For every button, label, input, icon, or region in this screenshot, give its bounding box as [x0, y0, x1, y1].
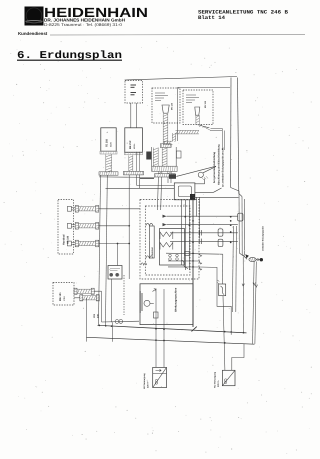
wire cluster to LE left — [157, 177, 158, 210]
cable stair upper run — [176, 130, 200, 134]
wave connector left — [141, 263, 147, 265]
junction — [163, 340, 165, 342]
wire LE bottom row 3 — [168, 266, 200, 268]
HEIDENHAIN logo — [25, 7, 44, 26]
transformer 1 strip — [153, 372, 167, 374]
cluster left nub — [146, 152, 151, 160]
wire X1 up — [204, 179, 206, 184]
stub tick b — [199, 261, 202, 264]
svg-text:Kundendienst: Kundendienst — [18, 31, 48, 36]
arrow row 1 — [163, 215, 167, 218]
ground clamp symbol — [198, 172, 203, 177]
wire right frame conductor 2 — [238, 78, 239, 194]
machine terminal block — [154, 312, 159, 318]
svg-text:BV 120: BV 120 — [171, 102, 174, 110]
stub tick c — [199, 267, 202, 270]
wire into earth point 1 — [239, 253, 246, 258]
terminal box X31 — [108, 266, 122, 280]
wire LE row 1 — [167, 215, 238, 217]
junction — [230, 231, 232, 233]
X31 terminals — [109, 273, 113, 277]
wire right pair b — [235, 226, 238, 312]
wire LE column c — [188, 200, 190, 271]
earth screw dot — [260, 258, 263, 261]
suppressor ticks — [217, 280, 219, 284]
cluster tail pair left — [158, 171, 162, 173]
wire ground bus y188 — [106, 187, 140, 189]
LE power supply box — [160, 229, 185, 266]
filter component row 4 — [218, 229, 223, 236]
wire LE column b — [184, 200, 186, 271]
machine connector strip — [140, 291, 142, 313]
monitor unit BE (dashed) — [152, 88, 180, 123]
wire cluster to X1 a — [167, 177, 169, 183]
machine PE terminal — [144, 300, 150, 306]
LE 360 cabinet (dashed) — [140, 200, 199, 280]
junction — [128, 225, 130, 227]
printer cable flange b — [91, 288, 94, 294]
suppressor component box — [219, 284, 226, 296]
printer cable flange d — [96, 295, 99, 301]
transformer 1 diagonal — [153, 367, 167, 387]
svg-text:220 V~: 220 V~ — [146, 380, 149, 388]
wire right frame conductor 1 — [230, 78, 232, 188]
cluster tail pair right — [168, 171, 171, 173]
cable under unit A — [106, 154, 112, 172]
wire PE terminals — [102, 320, 140, 323]
winding symbol 1 — [160, 232, 173, 239]
cable under unit B — [129, 155, 133, 171]
wire row to suppressor — [222, 254, 224, 284]
svg-text:an zentralen Erdungspunkt ansc: an zentralen Erdungspunkt anschl. — [222, 147, 225, 187]
wire PE terminal link — [150, 302, 154, 304]
svg-text:Blatt 14: Blatt 14 — [198, 15, 225, 21]
earth point wedge — [245, 254, 249, 258]
cluster right nub — [176, 151, 181, 158]
PE hook at main conductor — [192, 327, 197, 332]
junction — [224, 331, 226, 333]
connector X1 marker — [190, 194, 195, 200]
transformer 1 mark — [155, 379, 157, 381]
wire cabinet enclosure outline — [178, 88, 231, 142]
svg-text:Id.Nr.: Id.Nr. — [133, 143, 136, 149]
isolating transformer 2 — [222, 370, 235, 385]
wire cluster to X1 b — [170, 177, 172, 183]
wave connector upper — [146, 223, 153, 225]
wire ground conductor 3 — [244, 199, 246, 256]
junction — [117, 243, 119, 245]
shielded cable — [79, 241, 96, 245]
svg-text:BV 120: BV 120 — [204, 100, 207, 108]
flange under unit A — [100, 151, 117, 154]
junction — [192, 266, 194, 268]
printer cable flange c — [80, 295, 83, 301]
junction — [155, 328, 157, 330]
junction — [243, 332, 245, 334]
machine feed arrow — [153, 289, 157, 292]
cluster flange bar 2 — [155, 174, 176, 177]
wave connector lower — [146, 256, 153, 258]
handwheel cable row 3 — [67, 241, 71, 246]
capacitor pair row 3 — [199, 230, 201, 235]
unit B visual display — [125, 128, 143, 153]
stub tick a — [199, 253, 202, 256]
wire jog 2 — [239, 194, 242, 197]
winding symbol 2 — [160, 243, 173, 250]
wire printer cable 2 lead — [74, 297, 80, 299]
flow arrow c — [242, 284, 244, 287]
svg-text:LE-Versorgung: LE-Versorgung — [143, 373, 146, 389]
wire jog 1 — [231, 188, 239, 192]
connector X1 box — [174, 183, 195, 200]
leader line from note to cluster — [176, 166, 216, 176]
wire unit B cable L-turn to X1 upper — [137, 175, 174, 186]
wire ground bus 2 — [87, 337, 255, 344]
cable flange — [75, 223, 78, 230]
pigtail symbol — [182, 260, 188, 269]
svg-text:BE 212: BE 212 — [129, 140, 132, 149]
junction — [163, 328, 165, 330]
transformer 2 diagonal — [222, 370, 235, 385]
cluster left edge — [151, 147, 153, 166]
flange lower A — [99, 172, 118, 175]
cable stair step — [172, 133, 175, 141]
junction — [128, 243, 130, 245]
svg-text:NC-Versorgung: NC-Versorgung — [214, 371, 217, 388]
wire bus to transformer 2 — [232, 344, 244, 370]
isolating transformer 1 — [153, 367, 167, 387]
junction — [192, 252, 194, 254]
wire cluster to LE right — [160, 177, 163, 210]
wire LE row 2 — [167, 224, 238, 226]
LE inner enclosure (dashed) — [145, 206, 190, 275]
wire into earth point 2 — [242, 254, 247, 259]
wire unit B cable L-turn to X1 lower — [140, 175, 174, 188]
junction — [189, 224, 191, 226]
LE transformer column — [149, 226, 154, 258]
wire ground bus 1 — [98, 325, 247, 333]
svg-text:Id.Nr: Id.Nr — [110, 142, 113, 147]
cable monitor 2 to right pair — [211, 128, 225, 150]
wire earth pair b — [255, 262, 256, 344]
monitor unit 2 (dashed) — [183, 90, 213, 125]
wire LE bottom row 2 — [168, 260, 200, 262]
junction — [230, 242, 232, 244]
cable flange — [96, 240, 99, 247]
svg-text:Handrad: Handrad — [63, 234, 66, 245]
wire earth pair a — [253, 262, 255, 344]
wire drop cable 2 to bus — [86, 298, 88, 342]
cable monitor 2 diagonal — [197, 125, 212, 131]
transformer 2 mark — [224, 379, 226, 381]
junction — [105, 325, 107, 327]
cable from monitor 2 vertical — [196, 115, 199, 124]
wire machine to transformer L — [155, 289, 157, 367]
wire LE row 4 — [170, 240, 238, 242]
terminal pair a — [169, 254, 172, 257]
junction — [192, 220, 194, 222]
junction — [230, 216, 232, 218]
cable from monitor 1 — [163, 114, 168, 144]
wire unit B pair b — [139, 152, 141, 172]
cable stair lower run — [163, 141, 173, 145]
junction — [192, 260, 194, 262]
cable flange — [75, 206, 78, 213]
wire X1 note bend — [214, 188, 222, 192]
wire ground conductor 1 — [238, 191, 240, 253]
wire lug to screw — [256, 259, 263, 261]
svg-text:HR 330: HR 330 — [67, 235, 70, 244]
wire machine to transformer R — [163, 289, 165, 367]
svg-text:X21: X21 — [93, 313, 96, 318]
svg-text:Netzteil: Netzteil — [151, 247, 154, 256]
junction — [230, 220, 232, 222]
svg-text:bei getrennter Aufstellung: bei getrennter Aufstellung — [213, 152, 216, 183]
wire top frame line — [125, 77, 238, 81]
svg-text:TE 350: TE 350 — [106, 138, 109, 147]
wire from unit A ground right — [106, 175, 108, 325]
arrow row 2 — [163, 223, 167, 226]
component bottom row — [185, 251, 189, 255]
monitor 2 connector — [195, 107, 200, 115]
unit A keyboard — [101, 128, 116, 151]
suppressor pigtail — [221, 286, 225, 295]
wire right pair a — [232, 226, 233, 312]
junction — [192, 242, 194, 244]
cable flange — [75, 240, 78, 247]
wire main PE conductor — [192, 195, 194, 327]
dashed cabinet extension — [123, 275, 125, 315]
cable flange — [96, 223, 99, 230]
wire LE row to lower right W1 — [200, 267, 231, 335]
wire X1 top right — [195, 183, 205, 185]
printer cable 2 — [83, 296, 96, 300]
wire dark bus segment — [140, 177, 154, 179]
junction X1 corner — [192, 194, 194, 196]
wire X31 down — [111, 279, 113, 322]
wire LE bottom row 1 — [166, 253, 223, 254]
junction — [155, 339, 157, 341]
svg-text:ME 101: ME 101 — [59, 292, 62, 301]
machine tool box — [140, 284, 193, 325]
capacitor pair row 4 — [199, 239, 201, 244]
wire unit B pair a — [136, 152, 138, 172]
wire encoder to unit B — [135, 103, 137, 128]
wire X1 to note — [195, 191, 214, 193]
unit printer (dashed) — [53, 283, 74, 306]
junction — [184, 216, 186, 218]
flow arrow a — [253, 283, 255, 286]
svg-text:V.24: V.24 — [63, 296, 66, 301]
wire LE row 3 — [170, 232, 238, 234]
junction — [230, 331, 232, 333]
terminal pair b — [176, 254, 179, 257]
connector X1 inner — [178, 186, 191, 197]
monitor 1 text rows — [155, 93, 168, 101]
handwheel cable row 2 — [67, 223, 71, 228]
junction — [230, 224, 232, 226]
monitor 2 text rows — [186, 95, 199, 103]
title underline — [17, 59, 122, 61]
wire earth single — [242, 257, 244, 333]
cluster dark connector blob — [169, 174, 176, 179]
svg-text:24V: 24V — [97, 314, 100, 318]
svg-text:Werkzeugmaschine: Werkzeugmaschine — [175, 287, 178, 312]
earth lug — [249, 257, 256, 261]
flange under unit B — [125, 152, 143, 155]
svg-text:Abschirmung der Bildschirmleit: Abschirmung der Bildschirmleitung — [217, 144, 220, 185]
junction — [111, 325, 113, 327]
wire ground bus y177 — [99, 176, 155, 179]
filter component row 5 — [218, 239, 223, 246]
wire encoder to unit B — [130, 103, 132, 128]
shielded cable — [79, 207, 96, 211]
header rule line — [50, 33, 305, 36]
wire drop cable 1 — [101, 291, 103, 322]
wire LE column e — [199, 197, 201, 238]
cable flange — [96, 206, 99, 213]
junction — [98, 325, 100, 327]
encoder label marks — [131, 85, 137, 95]
svg-text:zentraler Erdungspunkt: zentraler Erdungspunkt — [262, 226, 265, 251]
unit handwheel (dashed) — [58, 200, 73, 255]
flow arrow b — [255, 285, 257, 288]
wire printer cable 1 cont — [94, 290, 101, 292]
junction — [224, 342, 226, 344]
wire LE column a — [181, 200, 183, 266]
wire from unit A ground left — [99, 175, 101, 325]
transformer 1 arrow — [156, 369, 162, 371]
unit position encoder (dashed) — [125, 81, 143, 104]
flange lower B — [124, 171, 144, 175]
monitor 1 connector — [162, 105, 169, 113]
component top right — [238, 213, 243, 221]
wire X31 up to handwheel row — [117, 244, 119, 266]
wire ground conductor 2 — [241, 197, 243, 255]
flange monitor cable 1 — [160, 144, 171, 148]
cluster cable left — [153, 148, 158, 167]
wire to transformer 2 left feed — [223, 296, 225, 371]
wire PE link to bus 2 — [112, 322, 114, 341]
cluster flange bar 1 — [152, 166, 177, 171]
svg-text:220 V~: 220 V~ — [217, 379, 220, 387]
handwheel cable row 1 — [67, 206, 71, 211]
wire from unit B down to LE cabinet — [128, 175, 130, 279]
shielded cable — [79, 224, 96, 228]
printer cable flange a — [74, 288, 77, 294]
wire LE column d — [196, 197, 198, 217]
cluster right edge — [175, 147, 177, 166]
wire junction to right frame — [193, 196, 239, 198]
svg-text:D-8225 Traunreut · Tel. (08669: D-8225 Traunreut · Tel. (08669) 31-0 — [44, 22, 123, 27]
PE terminal circles — [115, 320, 119, 324]
leader line from note to clamp — [203, 167, 216, 173]
cluster cable right — [162, 148, 167, 167]
printer cable 1 — [77, 289, 91, 293]
